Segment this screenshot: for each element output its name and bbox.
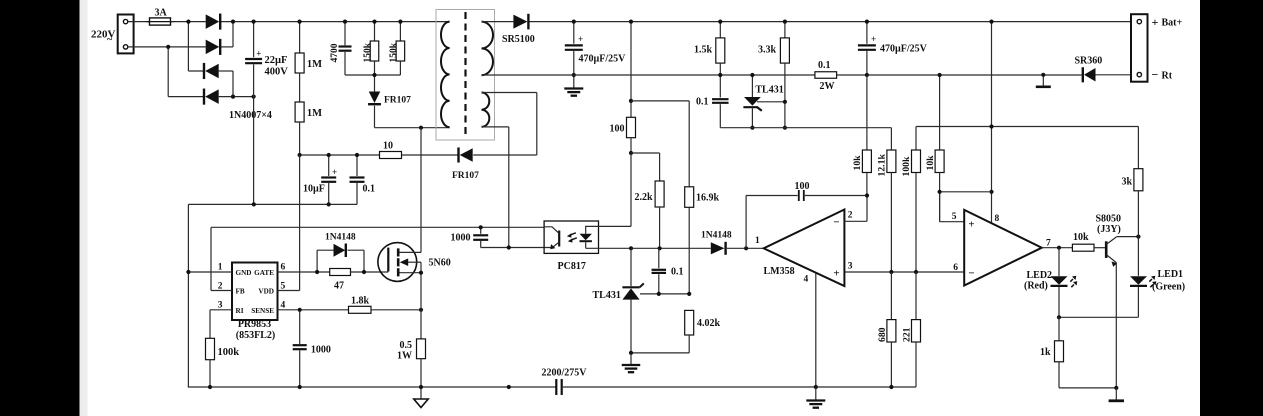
label 22uF 400V — [265, 55, 289, 78]
optocoupler arrows — [567, 233, 577, 243]
ground (secondary, earth) — [564, 75, 583, 96]
diode D9 SR360 — [1084, 68, 1096, 82]
transistor Q2 S8050 — [1106, 237, 1117, 267]
svg-text:LM358: LM358 — [764, 266, 795, 277]
wire: bridge verticals — [168, 22, 233, 97]
svg-text:10k: 10k — [852, 155, 863, 171]
svg-text:FB: FB — [236, 288, 245, 296]
ground (op-amp, earth) — [806, 387, 825, 408]
wire: battery negative line — [837, 74, 1082, 76]
svg-text:5: 5 — [952, 212, 957, 222]
svg-text:PC817: PC817 — [558, 261, 586, 272]
capacitor C7 2200/275V (Y-cap) — [556, 379, 561, 395]
capacitor C8 470uF/25V — [565, 22, 583, 75]
resistor R17 10k — [862, 75, 871, 196]
svg-text:3k: 3k — [1122, 177, 1133, 188]
svg-text:1.5k: 1.5k — [694, 45, 713, 56]
ground (chassis bar, right) — [1109, 388, 1124, 401]
IC U1 pin numbers — [218, 263, 286, 311]
wire: pin5 VDD link — [278, 155, 300, 291]
wire: primary bottom rail — [188, 386, 556, 388]
svg-text:1N4007×4: 1N4007×4 — [229, 110, 272, 121]
diode D7 1N4148 (gate) — [317, 244, 364, 273]
svg-text:SR360: SR360 — [1075, 56, 1103, 67]
svg-text:3: 3 — [218, 300, 223, 310]
svg-text:10k: 10k — [925, 155, 936, 171]
svg-text:+: + — [833, 268, 839, 280]
capacitor C12 100 — [746, 190, 867, 201]
wire: bridge row 3 — [188, 70, 204, 72]
svg-text:+: + — [578, 34, 583, 44]
svg-text:+: + — [256, 48, 261, 58]
wire: opto cathode / TL431 cathode row — [586, 247, 711, 249]
wire: aux winding top to rectifier — [473, 93, 537, 156]
diode D1 1N4007 — [206, 14, 220, 29]
capacitor C11 470uF/25V — [858, 22, 876, 75]
svg-text:2W: 2W — [820, 81, 835, 92]
wire: divider column from output — [630, 22, 632, 101]
wire: sense row to MOSFET source — [371, 309, 421, 311]
svg-text:3A: 3A — [155, 7, 168, 18]
resistor R6 100k — [206, 338, 215, 387]
optocoupler LED — [580, 226, 599, 248]
svg-text:4: 4 — [281, 300, 286, 310]
svg-text:RI: RI — [236, 307, 244, 315]
svg-text:100: 100 — [795, 181, 810, 192]
wire: bridge row 4 (DC-) — [168, 96, 204, 98]
label 220V~ — [91, 29, 116, 46]
svg-text:100: 100 — [610, 124, 625, 135]
wire: VDD row — [300, 154, 380, 156]
svg-text:10: 10 — [383, 141, 393, 152]
capacitor C6 1000 (sense filter) — [293, 310, 307, 387]
svg-text:S8050: S8050 — [1096, 214, 1122, 225]
wire: top rail (fuse to bridge to transformer) — [171, 21, 206, 23]
op-amp pin numbers — [755, 211, 853, 285]
left black bar — [0, 0, 80, 416]
transformer primary winding — [441, 22, 450, 128]
wire: gate row to MOSFET — [351, 271, 389, 273]
svg-text:PR9853: PR9853 — [238, 319, 271, 330]
resistor R23 10k — [1072, 244, 1094, 251]
resistor R19 100k — [912, 127, 921, 273]
capacitor C4 0.1 — [350, 155, 365, 204]
svg-text:0.1: 0.1 — [818, 60, 831, 71]
connector J2 battery — [1131, 14, 1148, 82]
LED LED2 (Red) — [1051, 248, 1078, 318]
svg-text:GATE: GATE — [254, 269, 274, 277]
svg-text:(Green): (Green) — [1152, 282, 1185, 293]
wire: V+ vertical — [991, 22, 993, 223]
svg-text:100k: 100k — [901, 156, 912, 177]
label -Rt — [1152, 68, 1173, 82]
resistor R10 0.1 2W (shunt) — [815, 72, 837, 79]
wire: top rail to battery — [530, 21, 1132, 23]
svg-text:(853FL2): (853FL2) — [236, 330, 275, 341]
label +Bat+ — [1152, 15, 1183, 29]
wire: pin2 feedback node — [844, 196, 867, 222]
wire: pin4 SENSE row — [278, 309, 349, 311]
resistor R11 100 — [627, 101, 636, 153]
wire: drain vertical — [420, 128, 422, 253]
svg-text:22µF: 22µF — [265, 55, 288, 66]
resistor R12 16.9k — [685, 187, 694, 294]
capacitor C1 22uF/400V — [245, 22, 262, 205]
wire: TL431 ref line — [757, 101, 785, 103]
resistor R2 1M — [295, 73, 304, 155]
svg-text:VDD: VDD — [258, 288, 274, 296]
diode D4 1N4007 — [205, 89, 219, 104]
svg-text:TL431: TL431 — [755, 85, 783, 96]
wire: pin5 link — [940, 192, 992, 222]
op-amp U5B LM358 — [964, 210, 1042, 286]
svg-text:3.3k: 3.3k — [758, 45, 777, 56]
svg-text:470µF/25V: 470µF/25V — [579, 54, 627, 65]
capacitor C2 4700 — [339, 22, 352, 75]
junction dots bridge — [166, 20, 256, 99]
resistor R5 10 — [380, 152, 402, 159]
svg-text:16.9k: 16.9k — [696, 193, 720, 204]
resistor R1 1M — [295, 22, 304, 73]
wire: VDD row to FR107 — [402, 154, 459, 156]
wire: pin3 row to op-amp2 pin6 — [844, 271, 964, 273]
capacitor C9 0.1 (comp) — [652, 248, 667, 294]
wire: 2.5V reference row — [720, 128, 891, 150]
wire: primary ground left vertical — [187, 204, 189, 387]
svg-text:5N60: 5N60 — [429, 258, 451, 269]
capacitor C5 1000 (FB filter) — [473, 227, 552, 247]
svg-text:2: 2 — [848, 211, 853, 221]
svg-text:1: 1 — [218, 263, 223, 273]
wire: pin4 to ground — [815, 274, 817, 388]
svg-text:150k: 150k — [363, 42, 373, 62]
svg-text:2: 2 — [218, 281, 223, 291]
wire: LED cathode row — [1059, 316, 1138, 318]
diode D3 1N4007 — [205, 64, 219, 79]
svg-text:FR107: FR107 — [384, 96, 411, 106]
resistor R21 680 — [887, 272, 896, 387]
svg-text:LED2: LED2 — [1027, 270, 1053, 281]
svg-text:2200/275V: 2200/275V — [542, 368, 588, 379]
shunt reference U4 TL431 — [743, 75, 761, 128]
svg-text:100k: 100k — [218, 347, 240, 358]
wire: pin1 GND to ground vertical — [188, 271, 232, 273]
svg-text:4.02k: 4.02k — [697, 318, 721, 329]
svg-text:4700: 4700 — [330, 43, 340, 62]
resistor R20 10k — [935, 75, 944, 222]
transformer secondary winding — [482, 22, 494, 76]
resistor R22 221 — [912, 272, 921, 387]
wire: collector to LED1 column — [1116, 236, 1138, 238]
resistor R9 0.5 1W — [417, 339, 426, 387]
svg-text:(Red): (Red) — [1024, 281, 1048, 292]
wire: pin2 FB loop — [211, 227, 544, 290]
transformer T1 box — [436, 10, 495, 141]
svg-text:+: + — [968, 219, 974, 231]
resistor R15 1.5k — [716, 22, 725, 75]
svg-text:−: − — [1152, 68, 1159, 82]
svg-text:−: − — [968, 268, 974, 280]
svg-text:+: + — [1152, 15, 1159, 29]
transistor Q1 5N60 MOSFET — [378, 243, 421, 282]
svg-text:Bat+: Bat+ — [1162, 17, 1183, 28]
svg-text:1: 1 — [755, 236, 760, 246]
wire: secondary ground rail — [482, 74, 815, 76]
svg-text:1k: 1k — [1040, 347, 1051, 358]
diode D6 FR107 (aux rectifier) — [460, 148, 473, 162]
svg-text:LED1: LED1 — [1158, 269, 1184, 280]
svg-text:5: 5 — [281, 281, 286, 291]
optocoupler phototransistor — [544, 227, 559, 250]
svg-text:1N4148: 1N4148 — [701, 231, 732, 241]
ground (primary, open triangle) — [414, 387, 428, 408]
svg-text:−: − — [833, 217, 839, 229]
resistor R13 2.2k — [655, 181, 664, 248]
svg-text:470µF/25V: 470µF/25V — [880, 44, 928, 55]
resistor R14 4.02k — [685, 310, 694, 353]
label S8050 (J3Y) — [1096, 214, 1122, 236]
transformer aux winding — [482, 93, 490, 127]
wire: 2.2k branch top — [631, 153, 660, 181]
svg-text:10k: 10k — [1073, 232, 1089, 243]
wire: pin6 GATE row — [278, 271, 330, 273]
wire: source vertical — [420, 252, 422, 339]
resistor R8 47 — [330, 269, 351, 276]
resistor R4 150k — [396, 22, 405, 75]
diode D8 SR5100 — [513, 15, 527, 29]
svg-text:~: ~ — [107, 35, 113, 46]
svg-text:1N4148: 1N4148 — [325, 233, 356, 243]
wire: secondary top rail — [482, 21, 514, 23]
label LED1 (Green) — [1152, 269, 1185, 292]
diode D10 1N4148 — [711, 242, 726, 255]
svg-text:+: + — [871, 34, 876, 44]
resistor R7 1.8k — [349, 306, 372, 313]
wire: L input to fuse — [128, 21, 150, 23]
svg-text:3: 3 — [848, 262, 853, 272]
connector J1 220V input — [118, 15, 134, 54]
svg-text:+: + — [332, 167, 337, 177]
wire: bottom right ground row — [1059, 387, 1116, 389]
resistor R3 150k — [370, 22, 379, 75]
op-amp2 pin numbers — [952, 212, 1051, 273]
label LED2 (Red) — [1024, 270, 1052, 292]
svg-text:2.2k: 2.2k — [635, 192, 654, 203]
label PR9853 (853FL2) — [236, 319, 275, 341]
wire: 16.9k branch top — [631, 101, 689, 187]
svg-text:221: 221 — [902, 327, 913, 342]
capacitor C3 10uF — [321, 155, 337, 204]
svg-text:4: 4 — [804, 275, 809, 285]
svg-text:(J3Y): (J3Y) — [1097, 224, 1121, 235]
svg-text:Rt: Rt — [1162, 71, 1173, 82]
wire: 100k top link row — [916, 126, 1138, 128]
wire: op-amp2 output — [1042, 247, 1073, 249]
svg-text:FR107: FR107 — [452, 171, 479, 181]
svg-text:6: 6 — [281, 263, 286, 273]
wire: snubber bottom row — [345, 74, 400, 76]
svg-text:6: 6 — [953, 263, 958, 273]
wire: TL431 anode row — [631, 352, 689, 354]
resistor R18 12.1k — [887, 150, 896, 272]
svg-text:7: 7 — [1046, 239, 1051, 249]
svg-text:1M: 1M — [307, 59, 322, 70]
diode D2 1N4007 — [206, 40, 220, 55]
resistor R16 3.3k — [780, 22, 789, 128]
resistor R25 1k — [1055, 317, 1064, 388]
wire: TL431 ref row — [640, 293, 689, 295]
IC U1 PR9853 box — [232, 263, 278, 321]
wire: primary ground upper row — [188, 203, 357, 205]
shunt reference U3 TL431 — [622, 248, 643, 353]
capacitor C10 0.1 — [712, 75, 729, 128]
svg-text:0.5: 0.5 — [400, 340, 413, 351]
wire: 10k to base — [1094, 247, 1105, 249]
wire: diode to op-amp output — [727, 247, 764, 249]
svg-text:0.1: 0.1 — [696, 97, 709, 108]
wire: pin1 output loop — [745, 196, 747, 249]
wire: emitter vertical — [1115, 263, 1117, 388]
svg-text:1000: 1000 — [451, 232, 471, 243]
svg-text:400V: 400V — [265, 67, 289, 78]
wire: primary switching node row — [375, 127, 450, 129]
wire: aux winding bottom — [482, 127, 509, 248]
svg-text:12.1k: 12.1k — [877, 154, 888, 177]
fuse F1 3A — [147, 18, 174, 25]
svg-text:1000: 1000 — [311, 345, 331, 356]
ground (TL431 anode, earth) — [622, 353, 641, 372]
svg-text:TL431: TL431 — [593, 290, 621, 301]
right black bar — [1200, 0, 1263, 416]
diode D5 FR107 (snubber) — [368, 75, 381, 128]
svg-text:10µF: 10µF — [303, 184, 325, 195]
op-amp U5A LM358 — [764, 210, 845, 287]
svg-text:1.8k: 1.8k — [351, 296, 370, 307]
svg-text:SR5100: SR5100 — [502, 34, 535, 45]
resistor R24 3k — [1134, 127, 1143, 276]
wire: pin3 RI to R6 — [210, 310, 232, 339]
svg-text:47: 47 — [334, 281, 344, 292]
optocoupler U2 PC817 box — [544, 221, 598, 253]
IC U1 pin names — [236, 269, 275, 315]
svg-text:0.1: 0.1 — [671, 267, 684, 278]
LED LED1 (Green) — [1130, 276, 1156, 318]
svg-text:0.1: 0.1 — [363, 184, 376, 195]
wire: SR360 to battery — [1096, 74, 1132, 76]
ground (chassis bar on battery negative) — [1036, 75, 1051, 87]
wire: secondary bottom rail — [563, 386, 916, 388]
svg-text:SENSE: SENSE — [251, 307, 274, 315]
svg-text:150k: 150k — [389, 42, 399, 62]
svg-text:GND: GND — [236, 269, 252, 277]
wire: opto LED anode feed — [599, 153, 632, 226]
svg-text:680: 680 — [877, 327, 888, 342]
transformer core — [464, 12, 466, 137]
svg-text:1W: 1W — [397, 351, 412, 362]
svg-text:1M: 1M — [307, 108, 322, 119]
wire: N input row — [128, 46, 206, 48]
svg-text:8: 8 — [995, 214, 1000, 224]
